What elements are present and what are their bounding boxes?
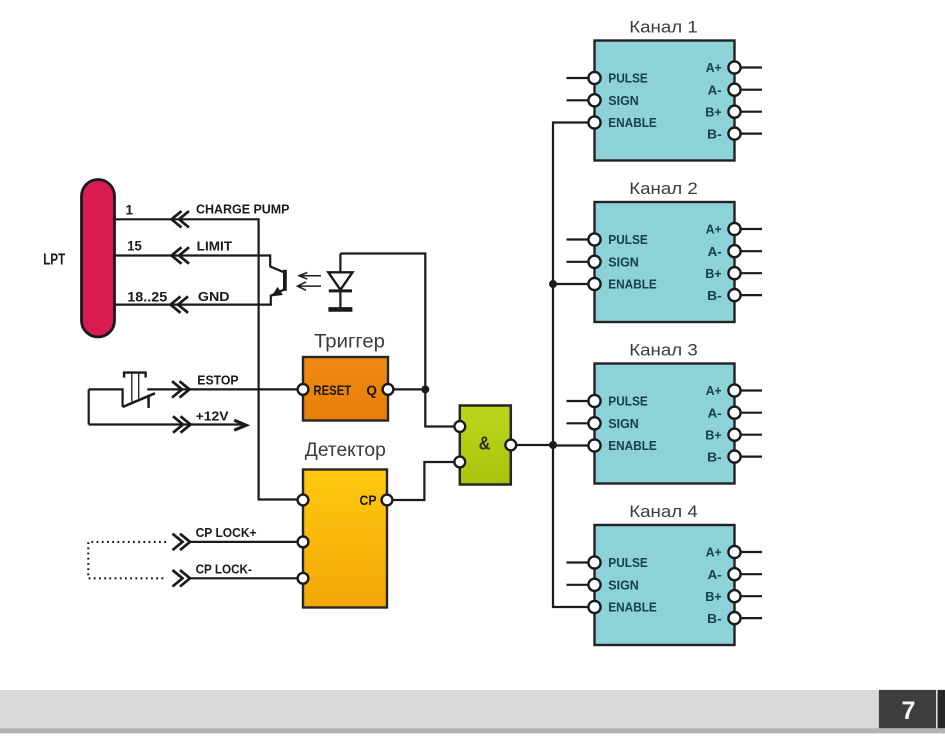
svg-text:A+: A+ xyxy=(706,222,722,237)
svg-text:SIGN: SIGN xyxy=(608,578,639,593)
port CP LOCK- input xyxy=(298,573,309,584)
wire AND output to bus xyxy=(516,444,553,446)
port SIGN channel 4 xyxy=(588,579,600,591)
port PULSE channel 1 xyxy=(588,72,600,84)
port B+ channel 4 xyxy=(728,590,740,602)
pushbutton switch ESTOP (NC) xyxy=(89,373,298,408)
channel block Канал 1 xyxy=(595,41,735,161)
wire B- stub channel 1 xyxy=(740,133,762,135)
svg-text:PULSE: PULSE xyxy=(608,71,648,86)
wire A+ stub channel 3 xyxy=(740,389,762,391)
svg-text:Канал 3: Канал 3 xyxy=(629,341,698,360)
channel block Канал 3 xyxy=(595,364,735,484)
port A+ channel 2 xyxy=(728,223,740,235)
svg-text:ENABLE: ENABLE xyxy=(608,438,657,453)
wire A+ stub channel 2 xyxy=(740,228,762,230)
svg-text:A-: A- xyxy=(708,244,722,259)
port CP output xyxy=(382,495,393,506)
power +12V line with arrow xyxy=(89,420,247,430)
arrow chevrons CP LOCK- xyxy=(173,570,191,586)
port A- channel 4 xyxy=(728,568,740,580)
port A- channel 1 xyxy=(728,84,740,96)
wire PULSE stub channel 4 xyxy=(567,561,589,563)
svg-text:B-: B- xyxy=(707,288,722,303)
port A- channel 2 xyxy=(728,245,740,257)
page number box xyxy=(879,690,936,728)
svg-text:ENABLE: ENABLE xyxy=(608,115,657,130)
svg-text:LPT: LPT xyxy=(43,252,65,269)
arrow chevrons CHARGE PUMP xyxy=(172,211,190,227)
port SIGN channel 3 xyxy=(588,417,600,429)
wire ENABLE bus xyxy=(553,123,589,608)
port AND input 1 xyxy=(454,421,465,432)
svg-text:B-: B- xyxy=(707,449,722,464)
title Канал 4 xyxy=(629,502,698,521)
port RESET xyxy=(298,384,309,395)
port ENABLE channel 4 xyxy=(588,601,600,613)
port B+ channel 3 xyxy=(728,429,740,441)
arrow chevrons CP LOCK+ xyxy=(173,534,191,550)
svg-text:Канал 1: Канал 1 xyxy=(629,18,698,37)
port A- channel 3 xyxy=(728,407,740,419)
port B- channel 1 xyxy=(728,128,740,140)
wire A+ stub channel 1 xyxy=(740,66,762,68)
connector LPT xyxy=(43,180,114,338)
port SIGN channel 2 xyxy=(588,256,600,268)
wire CP LOCK+ xyxy=(190,541,298,543)
footer bar xyxy=(0,690,945,734)
svg-text:+12V: +12V xyxy=(196,409,229,424)
channel block Канал 4 xyxy=(595,525,735,645)
svg-text:CP: CP xyxy=(360,493,377,508)
wire B- stub channel 2 xyxy=(740,294,762,296)
port A+ channel 1 xyxy=(728,61,740,73)
net label CP LOCK+ xyxy=(196,525,257,540)
port CP LOCK+ input xyxy=(298,537,309,548)
svg-text:A+: A+ xyxy=(706,545,722,560)
port PULSE channel 2 xyxy=(588,233,600,245)
svg-text:Детектор: Детектор xyxy=(305,439,386,461)
net label CP LOCK- xyxy=(196,561,252,576)
wire SIGN stub channel 1 xyxy=(567,99,589,101)
svg-text:A-: A- xyxy=(708,405,722,420)
port A+ channel 4 xyxy=(728,546,740,558)
svg-text:GND: GND xyxy=(198,289,230,304)
footer right edge block xyxy=(938,690,945,728)
svg-text:A-: A- xyxy=(708,567,722,582)
svg-text:PULSE: PULSE xyxy=(608,232,648,247)
wire B- stub channel 3 xyxy=(740,456,762,458)
svg-text:PULSE: PULSE xyxy=(608,394,648,409)
port A+ channel 3 xyxy=(728,384,740,396)
wire A- stub channel 1 xyxy=(740,89,762,91)
wire SIGN stub channel 4 xyxy=(567,584,589,586)
net label GND xyxy=(198,289,230,304)
arrow chevrons ESTOP xyxy=(172,381,190,397)
svg-text:Q: Q xyxy=(366,382,377,398)
svg-text:B+: B+ xyxy=(705,427,722,442)
title Детектор xyxy=(305,439,386,461)
LED D1 xyxy=(328,254,352,310)
title Канал 1 xyxy=(629,18,698,37)
svg-text:15: 15 xyxy=(127,239,142,254)
pin label 18..25 xyxy=(127,289,168,304)
svg-text:B-: B- xyxy=(707,126,722,141)
trigger block U1 Триггер xyxy=(303,357,388,421)
net label LIMIT xyxy=(197,238,232,253)
wire B+ stub channel 4 xyxy=(740,595,762,597)
wire SIGN stub channel 2 xyxy=(567,261,589,263)
wire CP LOCK- xyxy=(190,577,298,579)
junction bus AND output xyxy=(549,441,557,449)
wire PULSE stub channel 2 xyxy=(567,238,589,240)
junction node Q xyxy=(421,385,429,393)
wire PULSE stub channel 3 xyxy=(567,400,589,402)
svg-text:B-: B- xyxy=(707,611,722,626)
wire A- stub channel 2 xyxy=(740,250,762,252)
svg-text:A-: A- xyxy=(708,82,722,97)
port PULSE channel 3 xyxy=(588,395,600,407)
wire pin 15 LIMIT xyxy=(114,254,270,256)
port B+ channel 2 xyxy=(728,267,740,279)
svg-text:CP LOCK-: CP LOCK- xyxy=(196,561,252,576)
net label CHARGE PUMP xyxy=(196,202,290,217)
wire pin 1 CHARGE PUMP xyxy=(114,218,259,220)
svg-text:ESTOP: ESTOP xyxy=(197,372,239,387)
svg-text:ENABLE: ENABLE xyxy=(608,277,657,292)
svg-text:1: 1 xyxy=(126,202,134,217)
wire A- stub channel 3 xyxy=(740,412,762,414)
port B- channel 2 xyxy=(728,289,740,301)
port AND output xyxy=(505,440,516,451)
channel block Канал 2 xyxy=(595,202,735,322)
svg-text:CP LOCK+: CP LOCK+ xyxy=(196,525,257,540)
wire switch to +12V xyxy=(88,389,90,424)
wire Q output to AND gate input xyxy=(393,389,454,426)
svg-text:SIGN: SIGN xyxy=(608,93,639,108)
wire SIGN stub channel 3 xyxy=(567,422,589,424)
wire PULSE stub channel 1 xyxy=(567,77,589,79)
port B- channel 4 xyxy=(728,612,740,624)
wire A+ stub channel 4 xyxy=(740,551,762,553)
pin label 1 xyxy=(126,202,134,217)
svg-text:PULSE: PULSE xyxy=(608,555,648,570)
svg-text:ENABLE: ENABLE xyxy=(608,600,657,615)
svg-text:RESET: RESET xyxy=(313,382,351,398)
light arrows optocoupler xyxy=(298,273,322,291)
transistor Q1 optocoupler phototransistor xyxy=(270,254,285,305)
svg-text:Канал 2: Канал 2 xyxy=(629,179,698,198)
net label +12V xyxy=(196,409,229,424)
svg-text:&: & xyxy=(479,434,491,454)
title Канал 3 xyxy=(629,341,698,360)
port ENABLE channel 2 xyxy=(588,278,600,290)
port Q xyxy=(383,384,394,395)
arrow chevrons GND xyxy=(171,296,189,312)
svg-text:A+: A+ xyxy=(706,60,722,75)
svg-text:LIMIT: LIMIT xyxy=(197,238,232,253)
port B- channel 3 xyxy=(728,451,740,463)
svg-text:CHARGE PUMP: CHARGE PUMP xyxy=(196,202,290,217)
svg-text:B+: B+ xyxy=(705,266,722,281)
title Триггер xyxy=(314,330,385,352)
wire charge pump to detector xyxy=(259,218,298,499)
wire B+ stub channel 3 xyxy=(740,434,762,436)
svg-text:7: 7 xyxy=(902,697,916,725)
pin label 15 xyxy=(127,239,142,254)
svg-text:B+: B+ xyxy=(705,104,722,119)
port detector input xyxy=(298,495,309,506)
svg-text:A+: A+ xyxy=(706,383,722,398)
svg-text:SIGN: SIGN xyxy=(608,416,639,431)
arrow chevrons +12V xyxy=(173,416,191,432)
port ENABLE channel 1 xyxy=(588,116,600,128)
detector block U2 Детектор xyxy=(303,470,387,608)
svg-text:SIGN: SIGN xyxy=(608,255,639,270)
wire LED to node Q xyxy=(340,254,425,390)
wire CP output to AND gate input xyxy=(392,462,454,500)
net label ESTOP xyxy=(197,372,239,387)
svg-text:B+: B+ xyxy=(705,589,722,604)
port ENABLE channel 3 xyxy=(588,439,600,451)
arrow chevrons LIMIT xyxy=(172,247,190,263)
port SIGN channel 1 xyxy=(588,94,600,106)
wire B+ stub channel 2 xyxy=(740,272,762,274)
title Канал 2 xyxy=(629,179,698,198)
wire A- stub channel 4 xyxy=(740,573,762,575)
svg-text:18..25: 18..25 xyxy=(127,289,168,304)
wire B+ stub channel 1 xyxy=(740,111,762,113)
svg-text:Канал 4: Канал 4 xyxy=(629,502,698,521)
port AND input 2 xyxy=(454,457,465,468)
wire pin 18..25 GND xyxy=(114,304,271,306)
port B+ channel 1 xyxy=(728,106,740,118)
AND gate U3 xyxy=(460,406,511,485)
svg-text:Триггер: Триггер xyxy=(314,330,385,352)
port PULSE channel 4 xyxy=(588,556,600,568)
junction bus channel 2 xyxy=(549,280,557,288)
wire B- stub channel 4 xyxy=(740,617,762,619)
wire CP LOCK dotted loop xyxy=(88,542,166,578)
